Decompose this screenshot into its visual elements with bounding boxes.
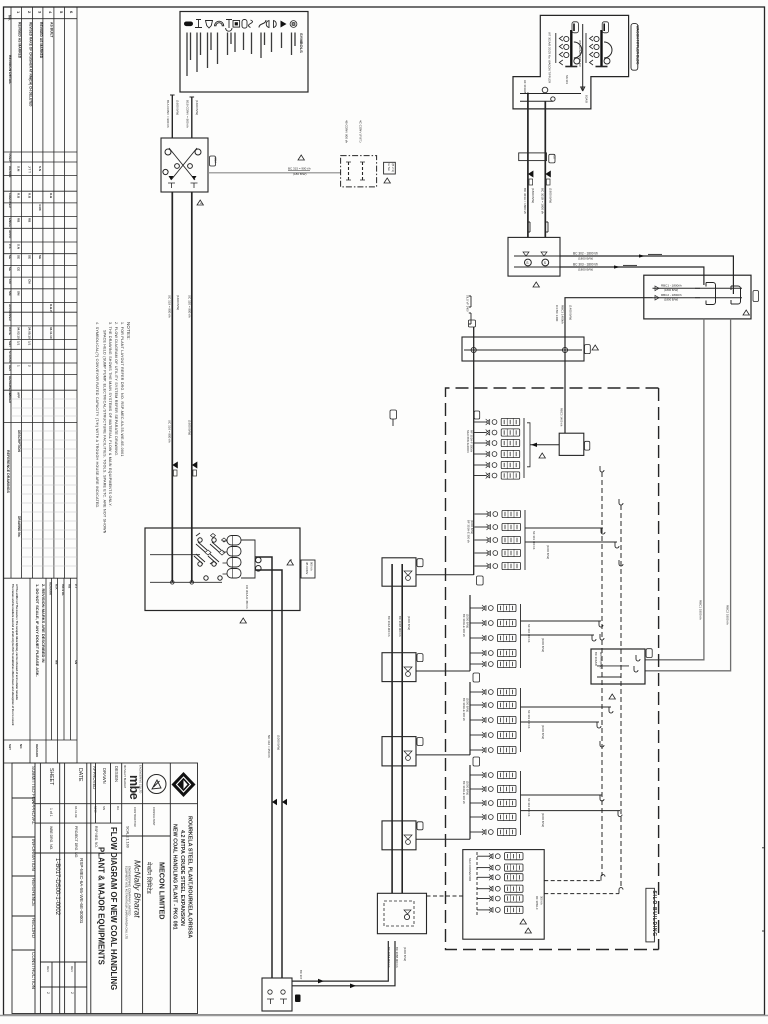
C3 tag below xyxy=(473,673,480,682)
svg-text:4.2 MTPA CRUDE STEEL EXPANSION: 4.2 MTPA CRUDE STEEL EXPANSION xyxy=(179,830,185,926)
svg-text:(1800 B/W): (1800 B/W) xyxy=(549,188,553,203)
triangle right of gallery xyxy=(592,345,598,350)
svg-text:REV: REV xyxy=(46,966,50,972)
stockyard S/R tag xyxy=(753,291,759,302)
BC303 arrow xyxy=(614,265,620,268)
RH tag xyxy=(646,649,652,658)
svg-text:M.K: M.K xyxy=(55,584,59,590)
svg-text:MECON LIMITED: MECON LIMITED xyxy=(158,862,167,920)
svg-text:SHEET: SHEET xyxy=(48,768,54,786)
svg-text:CR 301A-D 450 t/h: CR 301A-D 450 t/h xyxy=(245,585,249,609)
silo cluster C1 xyxy=(466,418,530,479)
submitted-for cell dividers xyxy=(12,797,35,799)
silo cluster C5 xyxy=(462,765,622,839)
svg-text:REMARK: REMARK xyxy=(35,744,39,758)
svg-text:DESCRIPTION: DESCRIPTION xyxy=(17,430,21,452)
BC302 arrow xyxy=(639,254,645,257)
bottom transfer box BT xyxy=(262,978,292,1011)
svg-text:BC 306A/B: BC 306A/B xyxy=(594,652,598,666)
dashed link T5 to SF xyxy=(427,895,463,897)
reference drawings light rows xyxy=(11,399,77,566)
reference drawings section divider xyxy=(4,422,78,424)
belt scale bracket 2 xyxy=(546,222,548,232)
svg-text:(1000 B/W): (1000 B/W) xyxy=(466,614,470,628)
belt scale brackets on gallery feed xyxy=(469,296,471,307)
svg-text:SN: SN xyxy=(102,806,106,810)
svg-text:SYMBOLS: SYMBOLS xyxy=(299,33,304,53)
svg-text:P.T: P.T xyxy=(74,584,78,588)
triangle below RH xyxy=(609,694,615,699)
svg-text:3. THE DRAWING SHOWS THE MAIN: 3. THE DRAWING SHOWS THE MAIN SYSTEMS OF… xyxy=(108,322,112,507)
silo cluster C4 xyxy=(462,682,613,755)
svg-text:HN: HN xyxy=(55,660,59,664)
C5 output line 2 xyxy=(521,810,621,812)
svg-text:SE: SE xyxy=(8,267,12,271)
svg-text:(1600 B/W): (1600 B/W) xyxy=(176,100,180,115)
silo feed spine through gallery xyxy=(473,327,475,575)
svg-text:P.S: P.S xyxy=(8,244,12,248)
crusher output conveyor NC316 line xyxy=(271,611,273,979)
svg-text:SC 320 ≈ 900 t/h: SC 320 ≈ 900 t/h xyxy=(187,295,191,318)
crusher house box xyxy=(145,528,300,611)
svg-text:(1800 B/W): (1800 B/W) xyxy=(578,257,593,261)
legend icon: weigh hopper xyxy=(206,21,213,29)
svg-text:(1800 B/W): (1800 B/W) xyxy=(664,298,678,302)
svg-text:SM: SM xyxy=(17,291,21,296)
T1 tag xyxy=(417,559,423,567)
T1 feed line xyxy=(416,574,474,576)
svg-text:R.B: R.B xyxy=(49,193,53,199)
svg-text:RBC3 1400t/h: RBC3 1400t/h xyxy=(561,305,565,324)
svg-text:REV: REV xyxy=(70,966,74,972)
svg-text:RECORD: RECORD xyxy=(31,918,36,939)
checked column line xyxy=(110,763,112,823)
conveyor line TH1 to crusher B xyxy=(191,192,193,582)
svg-text:CONSTRUCTION: CONSTRUCTION xyxy=(31,952,36,989)
apron feeder line inside extension xyxy=(520,93,581,95)
future conveyor stub 2 xyxy=(362,162,364,180)
svg-text:SF 301 300 t/h: SF 301 300 t/h xyxy=(532,531,536,550)
svg-text:(1600 B/W): (1600 B/W) xyxy=(187,420,191,435)
legend icon: magnetic separator xyxy=(259,20,266,28)
legend icon: belt conveyor pulleys xyxy=(266,21,276,28)
MECON diamond logo xyxy=(172,772,196,797)
C4 tag below xyxy=(473,757,480,766)
T5 internal pulleys xyxy=(404,914,409,919)
svg-text:REVISED AS MARKED: REVISED AS MARKED xyxy=(39,22,43,59)
screen circles xyxy=(198,538,202,542)
narrow column line xyxy=(39,763,41,1014)
triangle below tag xyxy=(384,178,390,183)
svg-text:CM: CM xyxy=(8,279,12,284)
svg-text:(1600 B/W): (1600 B/W) xyxy=(176,295,180,310)
contractor band divider xyxy=(122,835,171,837)
svg-text:SE: SE xyxy=(17,255,21,259)
svg-text:BF 303A-E 300 t/h: BF 303A-E 300 t/h xyxy=(462,698,466,721)
svg-text:4B CONV 900 t/h: 4B CONV 900 t/h xyxy=(345,120,349,144)
C3 output line 2 xyxy=(521,634,595,636)
svg-text:SCALE:1:100: SCALE:1:100 xyxy=(126,826,130,848)
SILO BUILDING label tag xyxy=(646,888,655,942)
legend icon: bag filter xyxy=(226,20,232,32)
svg-text:REMARK: REMARK xyxy=(49,582,53,596)
crusher outputs to right xyxy=(255,557,272,611)
svg-text:SUBMITTED FOR: SUBMITTED FOR xyxy=(31,766,36,804)
revision triangle 2 below TH1 xyxy=(197,200,203,205)
svg-text:(1000 B/W): (1000 B/W) xyxy=(470,520,474,534)
svg-text:B2: B2 xyxy=(553,156,557,160)
svg-text:04.11.09: 04.11.09 xyxy=(74,806,78,818)
revision strip column line x64.4 xyxy=(63,7,65,578)
svg-text:EQUIPMENT HSE. 4/2 TAHATAGUN J: EQUIPMENT HSE. 4/2 TAHATAGUN JHARNAPADA-… xyxy=(124,866,128,939)
svg-text:DA: DA xyxy=(116,806,120,810)
apron feeder line 2 xyxy=(520,100,553,102)
svg-text:(1000 B/W): (1000 B/W) xyxy=(546,545,550,559)
legend icon: flap gate triangle xyxy=(281,21,287,28)
svg-text:APPROVED: APPROVED xyxy=(92,766,97,789)
initials band divider xyxy=(87,822,122,824)
JH2 internal pulley S2 xyxy=(542,259,549,266)
svg-text:4. SYMBOLICAL(?) CONVEYOR RAT: 4. SYMBOLICAL(?) CONVEYOR RATED CAPACITY… xyxy=(95,322,99,509)
svg-text:ISSUED: ISSUED xyxy=(8,392,12,404)
svg-text:RSP NEG. NO.: RSP NEG. NO. xyxy=(94,826,98,848)
svg-text:B2A/B: B2A/B xyxy=(585,95,589,103)
svg-text:The names and be medium second: The names and be medium second at shall … xyxy=(11,584,15,726)
svg-text:NEW COAL HANDLING PLANT - PKG: NEW COAL HANDLING PLANT - PKG 091 xyxy=(172,824,178,930)
svg-text:BF 301A-E 300 t/h: BF 301A-E 300 t/h xyxy=(467,520,471,543)
belt scale bracket 1 xyxy=(528,222,530,232)
svg-text:APPD: APPD xyxy=(8,230,12,239)
svg-text:4C CONV (FUT.): 4C CONV (FUT.) xyxy=(359,120,363,143)
svg-text:1. FOR PLANT LAYOUT REFER DRG: 1. FOR PLANT LAYOUT REFER DRG. NO. RSP-M… xyxy=(120,322,124,457)
svg-text:BC 304B 900 t/h: BC 304B 900 t/h xyxy=(398,616,402,637)
svg-text:1 of 1: 1 of 1 xyxy=(49,808,53,817)
revision table header divider xyxy=(4,18,78,20)
revision strip outer border xyxy=(4,7,78,763)
svg-text:SILO VF 1400: SILO VF 1400 xyxy=(466,295,470,312)
C1 top tag xyxy=(474,411,480,419)
junction dot xyxy=(527,93,529,95)
label strip across conveyors xyxy=(519,153,547,161)
svg-text:(180 B/W): (180 B/W) xyxy=(293,172,307,176)
svg-text:(1400 B/W): (1400 B/W) xyxy=(569,305,573,320)
svg-text:APP: APP xyxy=(17,392,21,398)
svg-text:PREP: PREP xyxy=(8,154,12,162)
conveyor line TH1 to crusher A xyxy=(171,192,173,582)
JH2 internal line1 xyxy=(514,255,560,257)
date column line xyxy=(86,763,88,1014)
svg-text:BC 301B ≈ 1800 t/h: BC 301B ≈ 1800 t/h xyxy=(541,188,545,214)
flow arrows on crusher outputs xyxy=(272,799,277,805)
svg-text:REV: REV xyxy=(8,365,12,371)
legend icon: vibrating feeder xyxy=(290,21,297,28)
svg-text:BC 302 - 1800 t/h: BC 302 - 1800 t/h xyxy=(573,252,598,256)
triangle in stockyard xyxy=(743,310,749,315)
svg-text:1. DO NOT SCALE, IF ANY DOUBT: 1. DO NOT SCALE, IF ANY DOUBT PLEASE ASK… xyxy=(35,584,40,677)
crusher output conveyor NC317 line xyxy=(281,611,283,979)
conveyor BC303 to stockyard xyxy=(560,267,704,285)
svg-text:1/1: 1/1 xyxy=(28,341,32,346)
svg-text:300 t/h: 300 t/h xyxy=(540,896,544,905)
svg-text:WBE DRG. NO.: WBE DRG. NO. xyxy=(49,826,53,850)
svg-text:RBC2 1800 t/h: RBC2 1800 t/h xyxy=(726,605,730,625)
revision strip column line x53.9 xyxy=(53,7,55,578)
C4 output line 1 xyxy=(521,706,612,708)
C1 collect line xyxy=(523,418,525,478)
T4 pulley xyxy=(406,840,411,845)
svg-text:DRAWING No.: DRAWING No. xyxy=(17,516,21,538)
svg-text:BC 315 ≈ 900 t/h: BC 315 ≈ 900 t/h xyxy=(288,167,311,171)
T3 pulley xyxy=(406,756,411,761)
revision strip column line x21.5 xyxy=(21,7,23,578)
tag box right of future box xyxy=(384,162,396,174)
svg-text:SC 316 ≈ 900 t/h: SC 316 ≈ 900 t/h xyxy=(168,420,172,443)
wagon tippler WT2 xyxy=(586,30,612,67)
T3 feed line xyxy=(416,754,470,756)
T4 feed line xyxy=(416,838,470,840)
svg-text:2: 2 xyxy=(70,992,74,994)
legend icon: crusher xyxy=(233,21,240,28)
revision strip column line x42.9 xyxy=(42,7,44,578)
svg-text:2. REVISION MARKS ARE DESCRIBE: 2. REVISION MARKS ARE DESCRIBED IN xyxy=(41,584,46,663)
flow arrows on BT lines xyxy=(318,979,324,984)
svg-text:DATE: DATE xyxy=(77,768,83,782)
svg-text:RSP-MEC-6A-55-WE-6E-00001: RSP-MEC-6A-55-WE-6E-00001 xyxy=(79,858,84,924)
svg-text:3B CONV: 3B CONV xyxy=(305,562,309,574)
conveyor B1A vertical line top xyxy=(171,95,173,138)
svg-text:REFERENCE: REFERENCE xyxy=(31,878,36,906)
svg-text:CHECKED: CHECKED xyxy=(8,193,12,209)
svg-text:SHT: SHT xyxy=(8,341,12,347)
feed stub tag above gallery xyxy=(468,320,475,327)
border tick right 1 xyxy=(762,847,765,849)
JH2 internal pulley S1 xyxy=(525,259,532,266)
svg-text:STATUS: STATUS xyxy=(8,351,12,363)
dashed output from SF box 2 xyxy=(544,893,619,895)
svg-text:REVISED AS MARKED: REVISED AS MARKED xyxy=(18,22,22,59)
drg number bottom divider xyxy=(40,961,86,963)
TH1 crossing conveyor left xyxy=(169,148,195,180)
svg-text:SILO CONVEYOR: SILO CONVEYOR xyxy=(468,858,472,881)
svg-text:CONTRACTOR: CONTRACTOR xyxy=(133,807,137,827)
header band divider xyxy=(35,803,198,805)
svg-text:RF 305A-F: RF 305A-F xyxy=(535,896,539,910)
svg-text:(1000 B/W): (1000 B/W) xyxy=(277,735,281,750)
svg-text:DRAWN: DRAWN xyxy=(8,166,12,177)
TH1 crossing conveyor right xyxy=(171,148,197,180)
svg-text:900 t/h (B/W): 900 t/h (B/W) xyxy=(599,652,603,669)
svg-text:BF 302A-E 300 t/h: BF 302A-E 300 t/h xyxy=(462,614,466,637)
svg-text:SF 302 300 t/h: SF 302 300 t/h xyxy=(527,624,531,643)
svg-text:WT 301A/B 20/25 No. WAGON TIPP: WT 301A/B 20/25 No. WAGON TIPPLER xyxy=(548,32,552,83)
feed line ends xyxy=(171,581,175,585)
svg-text:R.B.P: R.B.P xyxy=(49,304,53,312)
svg-text:APPROVAL: APPROVAL xyxy=(31,800,36,825)
svg-text:RBC1 - 1800t/h: RBC1 - 1800t/h xyxy=(661,284,682,288)
crusher house tag right xyxy=(301,560,315,578)
crusher feed header line xyxy=(150,554,200,556)
svg-text:CE: CE xyxy=(17,267,21,271)
svg-text:BC 307: BC 307 xyxy=(299,970,303,980)
revision strip column line x32.4 xyxy=(31,7,33,578)
svg-text:NO: NO xyxy=(19,744,23,749)
triangle below crusher box xyxy=(240,618,246,623)
svg-text:McNally Bharat: McNally Bharat xyxy=(133,860,143,918)
legend icon: flap gate curve xyxy=(249,20,253,28)
T3 tag xyxy=(417,738,423,746)
consultant column line xyxy=(142,763,144,1014)
gallery pulley circle xyxy=(562,347,567,352)
svg-text:B1B CONV = 900 t/h: B1B CONV = 900 t/h xyxy=(186,100,190,128)
legend icon: motorized rack gate xyxy=(184,22,193,27)
svg-text:C4 BC 1400: C4 BC 1400 xyxy=(555,305,559,322)
silo cluster C3 xyxy=(462,595,603,671)
svg-text:(1000 B/W): (1000 B/W) xyxy=(466,698,470,712)
gallery wide box xyxy=(462,337,584,361)
svg-text:MKD: MKD xyxy=(94,806,98,814)
svg-text:SE: SE xyxy=(38,255,42,259)
svg-text:(1600 B/W): (1600 B/W) xyxy=(403,947,407,961)
legend icon: rod gate xyxy=(195,20,202,28)
page bottom scan line xyxy=(0,1015,768,1017)
svg-text:S.N: S.N xyxy=(17,244,21,249)
C3 output line 1 xyxy=(521,620,602,622)
T1 pulley xyxy=(406,576,411,581)
gallery internal conveyor line xyxy=(464,349,582,351)
T2 tag xyxy=(417,654,423,662)
C5 output line 1 xyxy=(521,794,603,796)
reclaim line RBC3 from stockyard xyxy=(565,298,653,337)
reclaim vertical RBC2 down xyxy=(645,319,731,671)
legend label strips xyxy=(187,33,295,77)
revision strip column line x11 xyxy=(10,7,12,578)
svg-text:NOTES:: NOTES: xyxy=(126,322,131,340)
svg-text:BC 301A ≈ 1800 t/h: BC 301A ≈ 1800 t/h xyxy=(523,188,527,214)
svg-text:1/1: 1/1 xyxy=(17,341,21,346)
tripper box T2 xyxy=(382,653,416,682)
reclaim house box RH xyxy=(591,649,645,684)
svg-text:INFORMATION: INFORMATION xyxy=(31,839,36,871)
wagon tippler WT1 xyxy=(556,30,582,67)
svg-text:WAGON TIPPLER BLDG: WAGON TIPPLER BLDG xyxy=(635,26,639,65)
stockyard flap marks xyxy=(655,286,659,291)
svg-text:(1000 B/W): (1000 B/W) xyxy=(541,813,545,827)
sheet column line xyxy=(59,763,61,1014)
RH internal hooks xyxy=(636,655,640,661)
svg-text:SF 304 300 t/h: SF 304 300 t/h xyxy=(527,798,531,817)
flow arrows on feed lines xyxy=(172,462,178,469)
svg-text:REVISION DETAIL: REVISION DETAIL xyxy=(8,55,12,84)
JH2 internal line2 xyxy=(514,266,560,268)
svg-text:PLANT & MAJOR EQUIPMENTS: PLANT & MAJOR EQUIPMENTS xyxy=(97,847,106,965)
triangle in crusher box xyxy=(287,560,293,565)
BT tag xyxy=(295,995,301,1003)
stacker reclaimer bracket 1 xyxy=(706,283,716,305)
T2 pulley xyxy=(406,672,411,677)
svg-text:mo a RL: mo a RL xyxy=(61,584,65,596)
svg-text:ENGG: ENGG xyxy=(8,218,12,228)
svg-text:B1A CONV = 900 t/h: B1A CONV = 900 t/h xyxy=(166,100,170,128)
T2 feed line xyxy=(416,670,470,672)
rev cell divider xyxy=(40,986,86,988)
svg-text:MCNALLY BHARAT: MCNALLY BHARAT xyxy=(123,765,127,788)
svg-text:SC 319 ≈ 900 t/h: SC 319 ≈ 900 t/h xyxy=(168,295,172,318)
svg-text:(1000 B/W): (1000 B/W) xyxy=(466,781,470,795)
submitted-for column line xyxy=(34,763,36,1014)
svg-text:1-B017-DS00-1-0002: 1-B017-DS00-1-0002 xyxy=(54,858,60,916)
svg-text:DRAWN: DRAWN xyxy=(102,768,107,784)
revision table dividers xyxy=(4,151,78,153)
conveyor BC302 to stockyard xyxy=(560,256,733,294)
conveyor BC301A vertical xyxy=(527,94,529,238)
svg-text:BC 303 - 1800 t/h: BC 303 - 1800 t/h xyxy=(573,263,598,267)
svg-text:AF 301A/B: AF 301A/B xyxy=(523,80,527,94)
crusher collect circles xyxy=(255,557,261,563)
svg-text:(1600 B/W): (1600 B/W) xyxy=(407,616,411,630)
svg-text:J T T: J T T xyxy=(28,166,32,173)
svg-text:CONSULTANT: CONSULTANT xyxy=(152,807,156,826)
title block outer border xyxy=(12,763,198,1014)
svg-text:No.: No. xyxy=(8,15,12,21)
distribution box tag xyxy=(585,441,590,450)
svg-text:(1800 B/W): (1800 B/W) xyxy=(578,268,593,272)
svg-text:(1000 B/W): (1000 B/W) xyxy=(541,725,545,739)
future conveyor stub 1 xyxy=(348,162,350,180)
stockyard conveyor line 1 xyxy=(653,287,743,289)
dashed output from SF box 1 xyxy=(544,880,601,882)
client column line xyxy=(169,763,171,1014)
svg-text:FLOW DIAGRAM OF NEW COAL HANDL: FLOW DIAGRAM OF NEW COAL HANDLING xyxy=(109,827,118,990)
C2 output line 1 xyxy=(525,527,603,529)
svg-text:AS BUILT: AS BUILT xyxy=(50,22,54,38)
RBC3 through-gallery line xyxy=(564,337,566,433)
svg-text:S.N: S.N xyxy=(38,166,42,171)
revision strip tiny texts xyxy=(6,11,78,758)
svg-text:S.M: S.M xyxy=(17,166,21,172)
svg-text:DATE: DATE xyxy=(8,327,12,335)
bottom transfer box T5 xyxy=(377,893,426,933)
legend icon: paddle feeder xyxy=(215,21,224,26)
svg-text:2: 2 xyxy=(46,992,50,994)
C1 tag below xyxy=(477,576,484,585)
svg-text:RBC2 - 1800t/h: RBC2 - 1800t/h xyxy=(661,293,682,297)
gallery right tag xyxy=(585,345,591,354)
svg-text:REFERENCE DRAWINGS: REFERENCE DRAWINGS xyxy=(6,450,10,494)
crusher collect line xyxy=(241,540,255,578)
svg-text:SPACE HELD (SUMP PUMP, ELECTRI: SPACE HELD (SUMP PUMP, ELECTRICAL/STRUCT… xyxy=(103,330,107,534)
svg-text:04.11.10: 04.11.10 xyxy=(49,327,53,339)
svg-text:(B 2 3): (B 2 3) xyxy=(391,164,395,172)
silo building dashed outline xyxy=(446,388,659,950)
McNally circular logo xyxy=(147,775,166,794)
screen flap diamonds xyxy=(205,550,225,555)
C6 triangles xyxy=(520,919,526,924)
conveyor reference tag upper xyxy=(390,410,397,419)
TH1 tag xyxy=(210,156,216,166)
svg-text:(1000 B/W): (1000 B/W) xyxy=(541,638,545,652)
svg-text:SN: SN xyxy=(74,660,78,664)
drg-no header divider xyxy=(35,852,122,854)
cluster1 to distribution line xyxy=(530,444,559,446)
BT output double line to silo feed xyxy=(292,941,388,981)
svg-text:CM: CM xyxy=(28,279,32,284)
svg-text:900 t/h: 900 t/h xyxy=(310,562,314,571)
node circle on extension line xyxy=(542,87,548,93)
svg-text:RBC3 1400 t/h: RBC3 1400 t/h xyxy=(560,408,564,427)
legend icon: screen xyxy=(242,20,247,29)
junction house JH2 box xyxy=(508,237,560,276)
svg-text:NC 316 ≈ 250 t/h: NC 316 ≈ 250 t/h xyxy=(267,735,271,758)
